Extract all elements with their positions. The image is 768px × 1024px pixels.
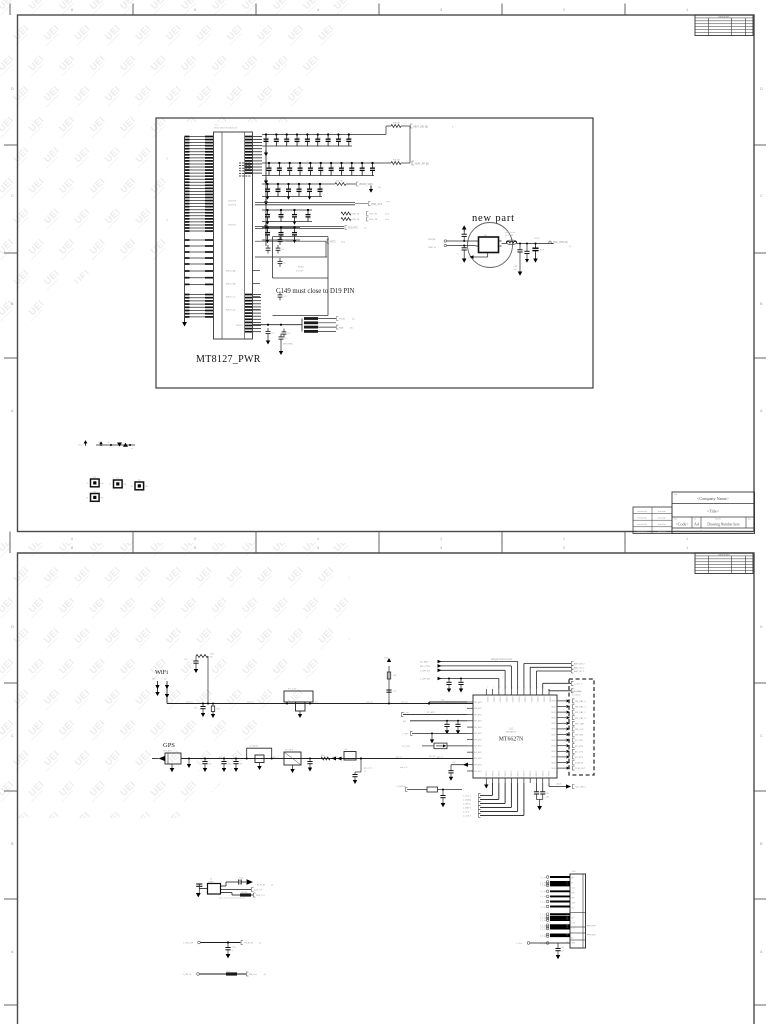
SAW filter FL2 — [284, 750, 301, 774]
series element U8 under loop — [255, 755, 264, 770]
bottom wire to 32K label — [549, 783, 586, 789]
connector U1 right pin stubs lower — [245, 295, 261, 332]
svg-text:R6A: R6A — [339, 326, 344, 329]
svg-text:L1 2.2uH: L1 2.2uH — [505, 235, 514, 237]
svg-text:C100: C100 — [239, 878, 244, 880]
wire WIFI_ANT main — [167, 700, 473, 704]
svg-text:PCM_IN: PCM_IN — [575, 763, 583, 765]
svg-text:WF_ANT: WF_ANT — [474, 707, 483, 710]
svg-text:A4: A4 — [694, 522, 699, 527]
svg-text:PO2B: PO2B — [339, 319, 345, 321]
svg-text:1u: 1u — [363, 172, 365, 174]
svg-text:WF_DAT_2: WF_DAT_2 — [575, 711, 587, 714]
svg-text:bar: bar — [164, 679, 167, 681]
svg-text:GPIO2: GPIO2 — [549, 771, 551, 777]
row 3 extension VDD33 flag — [322, 181, 381, 193]
test point TP1 — [86, 477, 104, 487]
svg-text:(2): (2) — [569, 246, 572, 248]
svg-text:VDDIO: VDDIO — [517, 697, 519, 704]
svg-text:C1: C1 — [298, 137, 300, 139]
svg-text:C1: C1 — [300, 187, 302, 189]
svg-text:D: D — [11, 87, 14, 91]
svg-text:C: C — [760, 194, 763, 198]
svg-text:VBAT_RF (B): VBAT_RF (B) — [415, 162, 430, 165]
connector J1 bold wire bars — [540, 875, 570, 944]
svg-text:1u: 1u — [282, 218, 284, 220]
IC U7 top wires to left antenna labels — [420, 660, 518, 689]
GPS branch to test point — [352, 757, 372, 784]
svg-text:WF_ANT: WF_ANT — [474, 701, 483, 704]
svg-text:(xxx): (xxx) — [385, 219, 389, 221]
svg-text:R11 0R: R11 0R — [393, 160, 400, 162]
crystal X1 left cap and ground — [196, 884, 208, 897]
svg-text:C1: C1 — [279, 187, 281, 189]
label wifi gps antenna wire — [491, 658, 513, 661]
watermark tiles page 2 — [0, 534, 367, 832]
capacitor C71 shunt on wifi wire — [194, 703, 206, 718]
GPS antenna connector J2 — [152, 750, 181, 773]
svg-text:L_x_xx: L_x_xx — [540, 936, 546, 938]
svg-text:MEDIATEK: MEDIATEK — [506, 731, 517, 734]
svg-text:1u: 1u — [291, 172, 293, 174]
svg-text:wifi_ant: wifi_ant — [186, 700, 193, 703]
svg-text:14: 14 — [567, 925, 569, 927]
svg-text:GPS: GPS — [163, 742, 175, 749]
wire WIFI_ANT into pin row 1 — [429, 700, 467, 704]
svg-text:SDIO: SDIO — [551, 723, 556, 725]
svg-text:1u: 1u — [319, 143, 321, 145]
capacitor bank row 2 (C10-C20) — [262, 162, 376, 176]
svg-text:ANT_5G 2: ANT_5G 2 — [574, 666, 585, 669]
svg-text:C41: C41 — [283, 240, 286, 242]
svg-text:L_RST 2: L_RST 2 — [463, 808, 472, 810]
svg-text:26MHz: 26MHz — [208, 881, 214, 883]
wire BT_ANT row with terminal — [402, 711, 468, 717]
page 1 revision table — [695, 15, 753, 36]
svg-text:SDIO: SDIO — [551, 718, 556, 720]
svg-text:L_IO 2: L_IO 2 — [463, 812, 470, 814]
svg-text:1u: 1u — [295, 218, 297, 220]
svg-text:WF_ANT: WF_ANT — [474, 751, 483, 754]
svg-text:C50: C50 — [271, 332, 274, 334]
svg-text:MT6627N: MT6627N — [499, 737, 524, 743]
svg-text:close to the: close to the — [505, 231, 516, 234]
svg-text:checked by: checked by — [637, 511, 647, 513]
svg-text:checked by: checked by — [637, 524, 647, 526]
svg-text:X1: X1 — [210, 879, 212, 881]
svg-text:VDDSYS: VDDSYS — [228, 201, 237, 203]
svg-text:ANT_BG 2: ANT_BG 2 — [574, 663, 585, 666]
svg-text:CLK_32K 2: CLK_32K 2 — [575, 787, 586, 789]
svg-text:1: 1 — [686, 537, 688, 541]
row 5 right resistors and labels — [341, 212, 389, 222]
svg-text:18: 18 — [567, 941, 569, 943]
svg-text:1u: 1u — [268, 236, 270, 238]
svg-text:SDIO: SDIO — [551, 729, 556, 731]
svg-text:VDD_IO: VDD_IO — [369, 214, 377, 216]
vertical feed bus with ground arrows — [264, 135, 268, 247]
resistor R40 pull-up branch — [196, 654, 215, 705]
wire GPS_RF main — [181, 756, 473, 758]
svg-text:wifi_ant: wifi_ant — [401, 700, 408, 703]
svg-text:C1: C1 — [321, 187, 323, 189]
svg-text:1u: 1u — [267, 143, 269, 145]
capacitor C50 with ground — [266, 324, 275, 345]
svg-text:WF_DAT_0: WF_DAT_0 — [575, 700, 587, 703]
svg-text:IN_R_M: IN_R_M — [257, 885, 265, 887]
sheet title MT8127_PWR — [196, 354, 261, 365]
svg-text:1u: 1u — [270, 172, 272, 174]
capacitor C82 shunt — [233, 758, 242, 773]
svg-text:C1: C1 — [329, 137, 331, 139]
svg-text:R10 0R: R10 0R — [393, 123, 400, 125]
svg-text:C1: C1 — [288, 137, 290, 139]
svg-text:GPIO2: GPIO2 — [536, 771, 538, 777]
ground arrow below chip pin 17 — [484, 783, 488, 789]
svg-text:1u: 1u — [342, 172, 344, 174]
test point TP4 — [86, 491, 104, 501]
svg-text:C95: C95 — [546, 793, 549, 795]
output capacitor C64 bold — [532, 243, 544, 263]
svg-text:C: C — [11, 734, 14, 738]
bottom left wire with resistor R52 and cap C97 — [396, 786, 462, 807]
svg-text:C: C — [11, 194, 14, 198]
PMIC outline rectangle — [273, 237, 329, 316]
svg-text:SDIO: SDIO — [551, 751, 556, 753]
dashed highlight box — [569, 679, 594, 775]
svg-text:C44: C44 — [287, 333, 290, 335]
note C149 must close to D19 PIN — [276, 288, 354, 295]
svg-text:1: 1 — [506, 687, 507, 689]
svg-text:4: 4 — [317, 537, 319, 541]
svg-text:C63: C63 — [514, 266, 517, 268]
svg-text:TP2: TP2 — [116, 478, 119, 480]
ground stem on GPS wire — [187, 758, 191, 769]
svg-text:VDDIO: VDDIO — [486, 697, 488, 704]
svg-text:WF_RST: WF_RST — [575, 735, 584, 737]
svg-text:gps_ant x: gps_ant x — [364, 767, 373, 770]
connector J1 body — [570, 871, 596, 948]
svg-text:C1: C1 — [267, 137, 269, 139]
svg-text:<Company Name>: <Company Name> — [697, 496, 730, 501]
svg-text:L_x_xx: L_x_xx — [540, 906, 546, 908]
page 2 left ruler ticks — [4, 625, 18, 1005]
svg-text:BT_TXD: BT_TXD — [575, 740, 583, 742]
svg-text:VDD_SYS: VDD_SYS — [371, 203, 383, 206]
svg-text:BT_RTS: BT_RTS — [575, 757, 584, 759]
IC U7 top wires to right labels — [524, 662, 585, 690]
capacitor bank row 5 (C27-C31) — [262, 209, 312, 225]
capacitor C41 — [278, 236, 287, 245]
svg-text:GPIO2: GPIO2 — [524, 771, 526, 777]
connector U1 mid stub grid — [239, 163, 251, 176]
svg-text:C1: C1 — [319, 137, 321, 139]
svg-text:VDDIO: VDDIO — [542, 697, 544, 704]
svg-text:WF_CLK: WF_CLK — [575, 729, 584, 731]
WiFi antenna stub ANT2 — [164, 679, 169, 704]
svg-text:TP3: TP3 — [138, 480, 141, 482]
IC U7 top pin stubs — [486, 687, 551, 703]
svg-text:C81: C81 — [227, 764, 230, 766]
svg-text:VDD1 VDD2 VCCA VCCK: VDD1 VDD2 VCCA VCCK — [214, 127, 238, 130]
svg-text:10uF: 10uF — [540, 250, 545, 252]
svg-text:47000pF: 47000pF — [296, 271, 304, 273]
svg-text:1u: 1u — [322, 172, 324, 174]
output capacitor C62 — [514, 243, 523, 276]
svg-text:wifi/gps antenna wire: wifi/gps antenna wire — [491, 658, 513, 661]
svg-text:SRCLK: SRCLK — [236, 325, 243, 327]
capacitor bank row 3 (C21-C26) — [262, 183, 323, 200]
svg-text:1u: 1u — [339, 143, 341, 145]
svg-text:PRX_D 2: PRX_D 2 — [256, 895, 266, 897]
svg-text:CLK: CLK — [452, 762, 457, 764]
svg-text:C1: C1 — [282, 231, 284, 233]
page 1 right ruler ticks — [754, 87, 766, 413]
svg-text:C1: C1 — [289, 187, 291, 189]
svg-text:AVDD_CC: AVDD_CC — [226, 296, 236, 299]
svg-text:C1: C1 — [363, 166, 365, 168]
svg-text:VIN (B): VIN (B) — [428, 239, 435, 241]
svg-text:C1: C1 — [277, 137, 279, 139]
svg-text:L_CLK 2: L_CLK 2 — [463, 816, 472, 818]
svg-text:to module: to module — [572, 693, 582, 696]
IC U7 bottom wires fanning left — [463, 783, 524, 818]
svg-text:BT_RXD: BT_RXD — [575, 746, 584, 748]
svg-text:SDIO: SDIO — [551, 768, 556, 770]
svg-text:1u: 1u — [268, 218, 270, 220]
svg-text:R42: R42 — [393, 675, 396, 677]
page 2 border frame — [18, 553, 755, 1024]
svg-text:C1: C1 — [310, 187, 312, 189]
svg-text:C1: C1 — [322, 166, 324, 168]
svg-text:BT_ANT: BT_ANT — [427, 711, 435, 714]
svg-text:Rev: Rev — [748, 519, 751, 521]
svg-text:L_GPS: L_GPS — [402, 734, 409, 736]
svg-text:WF_ANT: WF_ANT — [474, 757, 483, 760]
WiFi antenna stub ANT1 — [152, 679, 160, 697]
svg-text:L_SCL 2: L_SCL 2 — [463, 796, 472, 798]
IC U7 bottom pin stubs — [486, 771, 551, 783]
svg-text:Sheet: Sheet — [700, 530, 706, 533]
IC U7 right pin rows with net stubs — [551, 699, 586, 770]
svg-text:SDIO: SDIO — [551, 757, 556, 759]
output capacitor C63 — [524, 243, 529, 263]
svg-text:C1: C1 — [332, 166, 334, 168]
svg-text:VDD_WIFI (B): VDD_WIFI (B) — [553, 242, 568, 244]
svg-text:WF_ANT: WF_ANT — [474, 732, 483, 735]
label bottom-left of chip — [400, 766, 408, 769]
svg-text:VDDIO: VDDIO — [499, 697, 501, 704]
svg-text:1u: 1u — [350, 143, 352, 145]
svg-text:MLA1: MLA1 — [298, 266, 304, 269]
svg-text:xx xx: xx xx — [214, 125, 218, 127]
svg-text:1u: 1u — [288, 143, 290, 145]
svg-text:1u: 1u — [279, 193, 281, 195]
svg-text:VDDIO: VDDIO — [524, 697, 526, 704]
svg-text:GPIO2: GPIO2 — [486, 771, 488, 777]
svg-text:L_INT 2: L_INT 2 — [463, 804, 471, 806]
svg-text:C70: C70 — [184, 659, 187, 661]
svg-text:C1: C1 — [350, 137, 352, 139]
svg-text:WF_ANT: WF_ANT — [474, 738, 483, 741]
svg-text:WF_DAT_3: WF_DAT_3 — [575, 717, 587, 720]
svg-text:5: 5 — [194, 537, 196, 541]
svg-text:RF_IN: RF_IN — [429, 756, 435, 758]
svg-text:C1: C1 — [301, 166, 303, 168]
svg-text:BT_ANT: BT_ANT — [420, 661, 429, 664]
wire VRTC row — [255, 239, 345, 243]
capacitor C42 — [278, 258, 287, 267]
page 2 top ruler ticks — [10, 542, 689, 554]
svg-text:L_XIN_32K: L_XIN_32K — [183, 942, 194, 944]
svg-text:gps_rf: gps_rf — [273, 756, 279, 758]
svg-text:AVDD_DD: AVDD_DD — [226, 309, 236, 312]
capacitor bank row 1 (C1-C9) — [262, 133, 352, 146]
svg-text:IN_R_M: IN_R_M — [245, 943, 253, 945]
svg-text:L_x_xx: L_x_xx — [540, 896, 546, 898]
input capacitor C61 with ground — [457, 245, 467, 263]
diode pair D1 — [332, 757, 342, 761]
svg-text:1u: 1u — [310, 193, 312, 195]
svg-text:WF_ANT: WF_ANT — [474, 720, 483, 723]
connector U1 body — [214, 132, 294, 346]
svg-text:1u: 1u — [309, 218, 311, 220]
crystal X1 lower output with resistor R53 — [219, 892, 266, 900]
svg-text:FL2 GPS: FL2 GPS — [285, 750, 294, 752]
svg-text:L_x_xx: L_x_xx — [540, 901, 546, 903]
svg-text:1u: 1u — [301, 172, 303, 174]
svg-text:TP4: TP4 — [93, 491, 96, 493]
svg-text:17: 17 — [567, 935, 569, 937]
svg-text:C1: C1 — [282, 213, 284, 215]
crystal filter X1 — [208, 879, 221, 895]
svg-text:1u: 1u — [321, 193, 323, 195]
power bus VDD_RTC — [228, 224, 367, 229]
svg-text:SDIO: SDIO — [551, 740, 556, 742]
svg-text:Drawing Number here: Drawing Number here — [707, 523, 740, 527]
svg-text:C1: C1 — [295, 213, 297, 215]
svg-text:C98: C98 — [561, 947, 564, 949]
net label rows lower left — [226, 270, 260, 312]
watermark tiles page 1 — [0, 0, 367, 352]
svg-text:D: D — [11, 625, 14, 629]
page 1 inner schematic box — [156, 118, 593, 388]
svg-text:ANT_BT 2: ANT_BT 2 — [574, 670, 585, 673]
svg-text:1: 1 — [512, 687, 513, 689]
capacitor C44 — [282, 329, 291, 338]
label WiFi — [155, 669, 168, 676]
svg-text:C42: C42 — [283, 262, 286, 264]
svg-text:dwn date: dwn date — [658, 510, 666, 513]
svg-text:L_SDA 2: L_SDA 2 — [463, 799, 472, 802]
crystal X1 middle output wire — [221, 888, 264, 892]
svg-text:C1: C1 — [295, 231, 297, 233]
svg-text:△△: △△ — [509, 726, 514, 730]
wire FM net with resistor R54 — [183, 971, 266, 976]
svg-text:C51: C51 — [284, 338, 287, 340]
row 1 extension to VBAT_RF flag — [352, 123, 454, 135]
svg-text:Title: Title — [674, 493, 677, 496]
svg-text:C1: C1 — [309, 213, 311, 215]
connector U1 top net label — [214, 125, 238, 130]
svg-text:L_PWR(xx): L_PWR(xx) — [396, 786, 407, 788]
svg-text:WiFi: WiFi — [155, 669, 168, 676]
svg-text:L2 100nH: L2 100nH — [249, 746, 258, 748]
svg-text:1u: 1u — [268, 193, 270, 195]
svg-text:AVDD_BB: AVDD_BB — [226, 283, 236, 286]
svg-text:R50: R50 — [321, 755, 324, 757]
svg-text:C1: C1 — [353, 166, 355, 168]
regulator U5 body — [476, 235, 502, 253]
page 2 right ruler ticks — [754, 625, 766, 1005]
svg-text:L_x_xx: L_x_xx — [540, 928, 546, 930]
svg-text:C43: C43 — [283, 296, 286, 298]
svg-text:VDD_28: VDD_28 — [369, 219, 378, 221]
svg-text:SDIO: SDIO — [551, 746, 556, 748]
page 2 revision table — [695, 553, 753, 574]
regulator bottom pin hook — [470, 253, 488, 259]
svg-text:L_WF_BG: L_WF_BG — [420, 679, 431, 681]
svg-text:(2): (2) — [271, 885, 274, 887]
capacitor C81 shunt — [221, 758, 230, 773]
capacitor C40 pair below VRTC — [255, 241, 327, 257]
IC U7 MT6627N body — [473, 695, 557, 778]
svg-text:WF_ANT: WF_ANT — [474, 745, 483, 748]
svg-text:VDD: VDD — [384, 658, 389, 660]
svg-text:C101: C101 — [232, 947, 236, 949]
svg-text:xx: xx — [232, 950, 234, 952]
svg-text:C1: C1 — [268, 231, 270, 233]
svg-text:C96: C96 — [546, 797, 549, 799]
svg-text:SDIO: SDIO — [551, 701, 556, 703]
svg-text:(x): (x) — [364, 228, 367, 230]
svg-text:x2: x2 — [107, 442, 109, 444]
svg-text:VOUT: VOUT — [534, 238, 540, 240]
page 1 title block — [672, 492, 755, 534]
svg-text:checked by: checked by — [637, 518, 647, 520]
svg-text:Size: Size — [674, 519, 677, 521]
svg-text:VDDIO: VDDIO — [536, 697, 538, 704]
wire GPS_RF into pin row 10 — [429, 756, 467, 759]
svg-text:bt_ant: bt_ant — [403, 711, 409, 714]
svg-text:(xxx): (xxx) — [341, 241, 345, 243]
svg-text:1: 1 — [550, 687, 551, 689]
svg-text:R21 1K: R21 1K — [353, 214, 360, 216]
svg-text:C71: C71 — [194, 708, 197, 710]
svg-text:C1: C1 — [280, 166, 282, 168]
svg-text:10: 10 — [567, 915, 569, 917]
svg-text:1u: 1u — [332, 172, 334, 174]
svg-text:SPK_xx 2: SPK_xx 2 — [587, 935, 595, 937]
svg-text:WF_ANT: WF_ANT — [474, 764, 483, 767]
svg-text:1u: 1u — [300, 193, 302, 195]
svg-text:Date:: Date: — [675, 530, 681, 533]
wire SRCLKEN feed to resistor network — [236, 325, 302, 327]
svg-text:GPIO2: GPIO2 — [505, 771, 507, 777]
svg-text:<Code>: <Code> — [676, 522, 690, 527]
svg-text:GND: GND — [571, 942, 576, 944]
capacitor C80 shunt — [202, 758, 211, 773]
svg-text:GPIO2: GPIO2 — [542, 771, 544, 777]
svg-text:x3: x3 — [131, 448, 133, 450]
svg-text:D: D — [760, 87, 763, 91]
svg-text:GPIO2: GPIO2 — [517, 771, 519, 777]
pin row 11 with left arrow and cap C94 — [448, 762, 468, 781]
page 1 left ruler ticks — [4, 87, 18, 413]
svg-text:VDDRTC: VDDRTC — [228, 224, 237, 226]
svg-text:(2): (2) — [259, 943, 262, 945]
resistor R50 series — [321, 755, 330, 760]
